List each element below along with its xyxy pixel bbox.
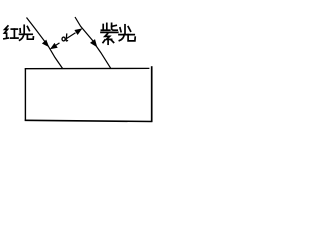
- label d (italic, drawn as paths): [62, 33, 68, 41]
- violet light ray (incident, upper-right to slab): [75, 17, 111, 68]
- d arrow lower-left head: [50, 43, 58, 49]
- label 红 (hand-drawn strokes): [4, 26, 18, 39]
- red light ray (incident, upper-left to slab): [27, 18, 63, 69]
- glass slab top edge: [25, 67, 150, 69]
- red ray arrowhead: [42, 40, 49, 48]
- glass slab left edge: [24, 68, 26, 120]
- d arrow upper-right head: [74, 28, 82, 35]
- glass slab bottom edge: [25, 120, 153, 121]
- d double arrow shaft upper segment: [67, 33, 76, 39]
- glass slab right edge: [151, 66, 153, 122]
- label 光 (left, hand-drawn strokes): [20, 25, 34, 40]
- label 紫 (hand-drawn strokes): [101, 23, 118, 44]
- label 光 (right, hand-drawn strokes): [119, 25, 135, 41]
- violet ray arrowhead: [90, 39, 97, 47]
- d double arrow shaft lower segment: [54, 43, 60, 47]
